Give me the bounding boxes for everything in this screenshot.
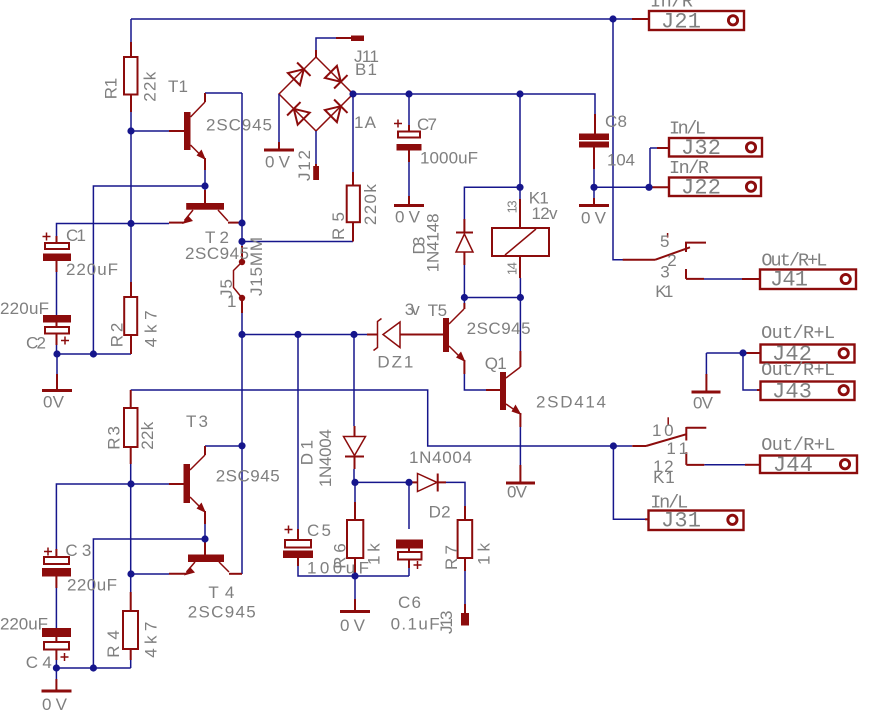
wire C5-R6-C6 bottom net y576: [298, 566, 409, 576]
svg-text:1k: 1k: [475, 543, 494, 566]
wire R3 top long net to switch 11: [131, 390, 632, 446]
junction R6 bottom / ground: [351, 572, 358, 579]
wire C1 top / T2 emitter net: [57, 224, 170, 237]
diode D2: [410, 474, 446, 492]
svg-text:0V: 0V: [42, 695, 68, 714]
svg-text:R5: R5: [329, 212, 348, 240]
wire T4 base net: [93, 539, 205, 668]
wire switch3 to J41: [704, 278, 742, 280]
wire T1 collector to column: [205, 92, 242, 94]
svg-text:2SC945: 2SC945: [206, 116, 272, 135]
wire R5 bottom to column: [242, 241, 353, 243]
wire R6 top: [354, 482, 356, 502]
junction relay coil feed: [516, 90, 523, 97]
svg-text:R2: R2: [108, 323, 127, 348]
connector J21: [632, 11, 744, 30]
wire R5 top: [352, 94, 354, 172]
capacitor C2: [43, 315, 71, 345]
jumper J5: [234, 246, 246, 313]
svg-text:In/L: In/L: [650, 493, 688, 514]
svg-text:2SC945: 2SC945: [188, 603, 256, 622]
svg-text:1N4004: 1N4004: [316, 429, 335, 487]
svg-text:R3: R3: [105, 426, 124, 450]
capacitor C3: [42, 548, 71, 589]
svg-text:0V: 0V: [340, 616, 366, 635]
svg-text:10: 10: [652, 421, 674, 440]
junction bridge + output: [349, 90, 356, 97]
zener diode DZ1: [367, 319, 404, 351]
wire C4 bottom net y668: [56, 649, 130, 668]
B1 top vertex wire and J11 stub: [316, 38, 336, 57]
wire T3 emitter column: [204, 524, 206, 542]
B1 diode top-right: [324, 65, 347, 88]
svg-text:22k: 22k: [140, 71, 159, 102]
ground 0V under C2: [56, 374, 58, 389]
connector J31: [645, 511, 744, 531]
svg-text:C8: C8: [605, 112, 627, 131]
transistor T2: [169, 190, 242, 224]
wire Q1 collector column: [519, 298, 521, 352]
capacitor C8: [579, 114, 609, 169]
svg-text:1N4004: 1N4004: [409, 448, 472, 467]
svg-text:J43: J43: [772, 380, 812, 405]
wire J42 J43 ground net: [706, 353, 757, 390]
svg-text:22k: 22k: [138, 421, 157, 449]
B1 left vertex ground wire: [278, 94, 280, 142]
svg-text:0V: 0V: [395, 208, 421, 227]
svg-text:220uF: 220uF: [66, 260, 118, 279]
connector J22: [649, 178, 761, 197]
B1 diode top-left: [287, 62, 310, 85]
wire C1-C2 column: [56, 272, 58, 316]
junction C1 / T2 emitter: [127, 220, 134, 227]
connector J32: [657, 138, 762, 157]
svg-text:In/R: In/R: [650, 0, 693, 13]
svg-text:0V: 0V: [507, 483, 528, 502]
svg-text:2SC945: 2SC945: [185, 244, 249, 263]
svg-text:1N4148: 1N4148: [423, 213, 442, 272]
wire R1 top: [130, 19, 132, 42]
svg-text:0V: 0V: [581, 209, 607, 228]
ground 0V under C4: [55, 679, 57, 690]
junction switch 11 / J31: [610, 442, 617, 449]
svg-text:D2: D2: [429, 503, 451, 522]
wire C2 R2 bottom net: [57, 353, 131, 355]
connector J43: [757, 382, 855, 401]
svg-text:T5: T5: [428, 301, 448, 320]
connector J41: [742, 270, 856, 290]
svg-text:D1: D1: [298, 440, 317, 465]
svg-text:J13: J13: [437, 611, 456, 635]
svg-text:C6: C6: [398, 593, 421, 612]
svg-text:C4: C4: [26, 653, 52, 672]
wire C4 ground stem: [55, 668, 57, 679]
svg-text:J5: J5: [217, 279, 236, 298]
svg-text:0.1uF: 0.1uF: [391, 615, 440, 634]
ground 0V under C8: [593, 198, 595, 204]
wire R3-R4 column: [130, 464, 132, 592]
junction T2 collector: [238, 219, 245, 226]
svg-text:220k: 220k: [361, 184, 380, 226]
wire mid bus y334.5: [242, 334, 367, 336]
junction J42 / J43 ground: [739, 349, 746, 356]
wire Q1 emitter ground stem: [519, 427, 521, 465]
wire relay pin14 bottom: [519, 278, 521, 298]
wire T3 base: [131, 483, 169, 485]
wire relay K1 coil top: [519, 94, 521, 199]
junction T3 emitter / T4 base: [201, 535, 208, 542]
wire T5 collector: [463, 298, 465, 304]
wire D1 column: [353, 335, 355, 427]
wire D3 bottom: [463, 265, 465, 298]
svg-text:220uF: 220uF: [67, 576, 117, 595]
resistor R1: [124, 42, 138, 112]
svg-text:DZ1: DZ1: [377, 353, 413, 372]
wire D2 net y482: [354, 482, 465, 506]
junction T1 emitter / T2 base: [201, 182, 208, 189]
junction bus / D1: [350, 331, 357, 338]
wire C2 ground stem: [56, 354, 58, 374]
capacitor C1: [43, 233, 72, 273]
capacitor C5: [283, 526, 313, 567]
relay K1 coil: [492, 199, 549, 278]
svg-text:T1: T1: [168, 77, 188, 96]
wire J31 branch: [613, 446, 645, 519]
svg-text:1000uF: 1000uF: [420, 149, 478, 168]
diode D1: [344, 426, 366, 469]
svg-text:5: 5: [660, 232, 669, 251]
svg-text:C5: C5: [307, 521, 331, 540]
connector J44: [745, 456, 857, 474]
junction D2 / C6 top: [405, 479, 412, 486]
svg-text:Q1: Q1: [485, 354, 507, 373]
svg-text:T3: T3: [186, 412, 208, 431]
junction V+ rail / J21 column: [609, 15, 616, 22]
svg-text:4k7: 4k7: [141, 310, 160, 347]
connector J42: [743, 345, 855, 363]
wire C3 top branch: [56, 484, 130, 549]
connector J12 stub pad: [313, 166, 319, 180]
wire D3/relay bottom net y297.5: [464, 297, 520, 299]
svg-text:Out/R+L: Out/R+L: [761, 323, 835, 344]
svg-text:13: 13: [504, 200, 519, 213]
wire R1-R2 column: [130, 112, 132, 282]
junction D3 bottom / T5 collector: [461, 294, 468, 301]
capacitor C6: [396, 540, 423, 570]
svg-text:1A: 1A: [354, 113, 377, 132]
wire D1 bottom: [353, 469, 355, 482]
B1 diode bottom-right: [324, 99, 347, 122]
relay contact K1 10-11-12: [632, 417, 706, 465]
resistor R4: [123, 592, 138, 660]
wire top rail V+ to J21: [131, 18, 632, 20]
transistor T1: [169, 93, 206, 170]
svg-text:2SC945: 2SC945: [216, 467, 280, 486]
wire T4 emitter net: [131, 573, 169, 575]
svg-text:11: 11: [666, 439, 688, 458]
ground 0V under C7: [408, 162, 410, 196]
svg-text:0V: 0V: [43, 393, 65, 412]
junction R2 bottom net: [90, 350, 97, 357]
ground 0V under J42: [705, 374, 707, 391]
svg-text:220uF: 220uF: [0, 615, 48, 634]
capacitor C4: [42, 628, 71, 661]
junction T3 collector: [238, 442, 245, 449]
wire C2 bottom: [56, 345, 58, 354]
svg-text:C3: C3: [65, 541, 91, 560]
wire T3 collector: [205, 445, 242, 447]
wire T1 emitter T2 base net: [93, 170, 205, 354]
diode D3: [456, 219, 473, 265]
junction R1 / T1 base: [127, 127, 134, 134]
svg-text:B1: B1: [355, 60, 377, 79]
junction C2 bottom: [53, 350, 60, 357]
svg-text:K1: K1: [653, 468, 675, 487]
svg-text:J22: J22: [681, 176, 721, 201]
junction relay pin14 / Q1 collector: [517, 294, 524, 301]
resistor R6: [347, 502, 363, 576]
wire D3 top net: [464, 187, 520, 219]
svg-text:J21: J21: [661, 10, 701, 35]
wire R6 ground stem: [354, 576, 356, 599]
svg-text:Out/R+L: Out/R+L: [761, 360, 835, 381]
junction relay pin13 / D3 top: [516, 184, 523, 191]
svg-text:R1: R1: [101, 78, 120, 99]
svg-text:104: 104: [607, 151, 635, 170]
transistor T3: [169, 446, 206, 524]
svg-text:2SC945: 2SC945: [467, 319, 531, 338]
svg-text:C1: C1: [66, 226, 86, 245]
transistor T5: [400, 303, 466, 374]
wire column x242 upper: [241, 93, 243, 246]
transistor Q1: [486, 351, 522, 427]
wire main +rail y94: [353, 94, 595, 114]
svg-text:C2: C2: [26, 334, 46, 353]
svg-text:220uF: 220uF: [0, 299, 49, 318]
resistor R7: [458, 506, 473, 571]
junction J22 / J32: [645, 184, 652, 191]
junction R5 bottom: [238, 238, 245, 245]
transistor T4: [169, 542, 242, 576]
wire C7 top: [408, 94, 410, 125]
junction C8 bottom / ground: [590, 184, 597, 191]
junction C4 bottom: [53, 664, 60, 671]
junction mid bus left: [238, 331, 245, 338]
wire C6 bottom: [408, 568, 410, 576]
connector J11 stub pad: [351, 36, 364, 42]
ground 0V under Q1 emitter: [519, 465, 521, 482]
resistor R3: [124, 390, 138, 464]
wire C8 ground stem: [593, 187, 595, 198]
junction D1 / R6 top: [351, 479, 358, 486]
svg-text:14: 14: [504, 262, 519, 275]
svg-text:0V: 0V: [265, 153, 291, 172]
ground 0V bridge: [264, 149, 294, 152]
wire J32 down to J22 net: [650, 148, 657, 187]
junction R4 bottom net: [90, 664, 97, 671]
svg-text:2SD414: 2SD414: [536, 393, 606, 412]
connector J13 stub: [464, 604, 466, 613]
svg-text:0V: 0V: [693, 394, 714, 413]
wire C3-C4 column: [55, 588, 57, 629]
wire T5 emitter to Q1 base: [464, 374, 486, 390]
svg-text:J15MM: J15MM: [247, 237, 266, 296]
junction R3 / T3 base: [127, 480, 134, 487]
svg-text:12v: 12v: [532, 204, 559, 223]
wire C5 column: [297, 335, 299, 530]
svg-text:In/R: In/R: [669, 158, 709, 179]
junction bus / C5: [294, 331, 301, 338]
wire T1 base: [131, 130, 169, 132]
svg-text:4k7: 4k7: [142, 622, 161, 658]
svg-text:Out/R+L: Out/R+L: [761, 435, 835, 456]
svg-text:3: 3: [660, 263, 669, 282]
diode bridge B1 frame: [279, 57, 353, 131]
svg-text:T4: T4: [208, 583, 234, 602]
wire C8 bottom to J22: [594, 169, 649, 187]
B1 bottom vertex wire and J12 stub: [315, 131, 317, 164]
ground 0V under R6: [354, 599, 356, 610]
B1 diode bottom-left: [287, 102, 310, 125]
capacitor C7: [394, 120, 422, 163]
resistor R5: [347, 172, 360, 242]
wire J21 column down to switch K1 common: [613, 19, 628, 260]
junction R4 / T4 emitter: [127, 570, 134, 577]
wire switch12 to J44: [704, 464, 745, 466]
svg-text:Out/R+L: Out/R+L: [761, 251, 827, 272]
svg-text:C7: C7: [417, 115, 437, 134]
svg-text:3v: 3v: [405, 300, 421, 319]
svg-text:In/L: In/L: [669, 119, 706, 140]
wire column x242 lower: [241, 313, 243, 574]
svg-text:1k: 1k: [365, 543, 384, 565]
wire R7 bottom to J13: [464, 571, 466, 604]
svg-text:R4: R4: [104, 630, 123, 658]
svg-text:K1: K1: [655, 282, 673, 301]
wire C6 column: [408, 482, 410, 529]
relay contact K1 5-2-3: [623, 233, 706, 279]
junction C7 top: [405, 90, 412, 97]
svg-text:J44: J44: [773, 453, 813, 478]
svg-text:J12: J12: [295, 150, 314, 181]
resistor R2: [124, 282, 137, 354]
